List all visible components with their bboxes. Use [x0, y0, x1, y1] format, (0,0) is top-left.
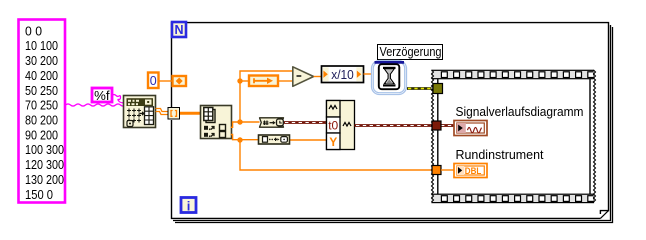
- wire 1D array: [180, 112, 201, 115]
- svg-text:N: N: [174, 23, 183, 37]
- wire expression to delay: [364, 73, 372, 75]
- wire y down to DBL tunnel: [240, 140, 432, 170]
- expression node x/10: [322, 66, 364, 83]
- wire subtract to expression: [314, 76, 322, 78]
- error tunnel: [433, 84, 443, 94]
- wire x to subtract: [240, 71, 293, 122]
- svg-text:100 300: 100 300: [25, 142, 64, 157]
- svg-text:50 250: 50 250: [25, 83, 58, 98]
- junction dot A: [237, 78, 242, 83]
- wire %f to node: [112, 95, 124, 103]
- DBL terminal: [454, 164, 487, 178]
- numeric constant 0: [148, 73, 172, 89]
- wire time stamp: [284, 121, 327, 124]
- wire string table to node: [66, 104, 126, 106]
- wire feedback to subtract: [279, 80, 293, 82]
- svg-text:150 0: 150 0: [25, 187, 53, 202]
- svg-text:80 200: 80 200: [25, 113, 58, 128]
- svg-text:30 200: 30 200: [25, 53, 58, 68]
- Index Array node: [201, 106, 232, 139]
- wire pill2 to Y: [290, 139, 327, 141]
- feedback node: [249, 76, 278, 87]
- wire y row: [231, 135, 259, 140]
- wire to feedback node: [240, 80, 249, 82]
- label Rundinstrument: [456, 147, 544, 162]
- svg-text:130 200: 130 200: [25, 172, 64, 187]
- Spreadsheet String To Array node: [124, 96, 156, 128]
- svg-text:x/10: x/10: [331, 68, 354, 82]
- wire tunnel to DBL terminal: [441, 169, 454, 171]
- format string constant %f: [92, 88, 112, 103]
- svg-text:i: i: [187, 198, 191, 213]
- svg-text:Rundinstrument: Rundinstrument: [456, 147, 544, 162]
- svg-text:40 200: 40 200: [25, 68, 58, 83]
- Build Waveform node: [327, 101, 355, 150]
- svg-text:10 100: 10 100: [25, 38, 58, 53]
- indexing tunnel: [168, 108, 180, 120]
- svg-text:90 200: 90 200: [25, 127, 58, 142]
- svg-text:DBL: DBL: [465, 166, 482, 177]
- svg-text:Signalverlaufsdiagramm: Signalverlaufsdiagramm: [456, 104, 584, 119]
- wire x row: [231, 122, 260, 127]
- svg-text:Y: Y: [329, 135, 337, 149]
- svg-text:Verzögerung: Verzögerung: [380, 44, 442, 59]
- waveform wire: [355, 124, 455, 127]
- svg-text:%f: %f: [94, 88, 110, 103]
- feedback initializer terminal: [173, 76, 187, 86]
- svg-text:70 250: 70 250: [25, 98, 58, 113]
- svg-text:120 300: 120 300: [25, 157, 64, 172]
- svg-text:t0: t0: [328, 119, 338, 133]
- waveform tunnel: [432, 121, 441, 130]
- Time Delay express VI: [372, 61, 407, 95]
- svg-text:0: 0: [150, 74, 157, 88]
- error wire: [407, 87, 433, 90]
- waveform chart terminal: [454, 121, 487, 136]
- label Signalverlaufsdiagramm: [456, 104, 584, 119]
- scalar to array conversion: [259, 135, 290, 144]
- wire 2D array to tunnel: [156, 109, 169, 115]
- svg-text:0 0: 0 0: [25, 23, 42, 38]
- junction dot B: [237, 119, 242, 124]
- To Time Stamp conversion: [260, 118, 284, 127]
- junction dot C: [237, 137, 242, 142]
- label Verzoegerung: [378, 44, 443, 60]
- for loop frame: [172, 23, 613, 223]
- loop iteration terminal i: [181, 198, 196, 214]
- loop count terminal N: [172, 22, 186, 37]
- DBL tunnel: [432, 166, 441, 175]
- subtract function: [293, 67, 314, 87]
- flat sequence frame: [432, 70, 596, 203]
- string table constant: [19, 20, 66, 203]
